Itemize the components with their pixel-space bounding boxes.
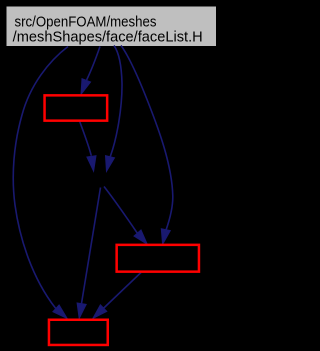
edge faceList.H -> bottom red node (long left curve) bbox=[13, 47, 68, 319]
edge faceList.H -> middle-right red node (long right curve) bbox=[121, 46, 173, 245]
svg-text:/meshShapes/face/faceList.H: /meshShapes/face/faceList.H bbox=[13, 29, 203, 45]
edge faceList.H -> hidden middle node bbox=[106, 46, 123, 172]
node faceList.H (current file, grey filled) bbox=[7, 7, 217, 47]
middle-right red node (truncated dependency) bbox=[117, 245, 199, 272]
upper red node (truncated dependency) bbox=[45, 95, 108, 120]
edge hidden middle node -> middle-right red node bbox=[104, 187, 147, 245]
edge hidden middle node -> bottom red node bbox=[77, 188, 100, 319]
edge upper red node -> hidden middle node bbox=[80, 121, 97, 171]
edge middle-right red node -> bottom red node bbox=[93, 273, 141, 319]
edge faceList.H -> upper red node bbox=[81, 47, 100, 95]
svg-text:src/OpenFOAM/meshes: src/OpenFOAM/meshes bbox=[15, 15, 157, 31]
bottom red node (truncated dependency) bbox=[49, 320, 108, 345]
